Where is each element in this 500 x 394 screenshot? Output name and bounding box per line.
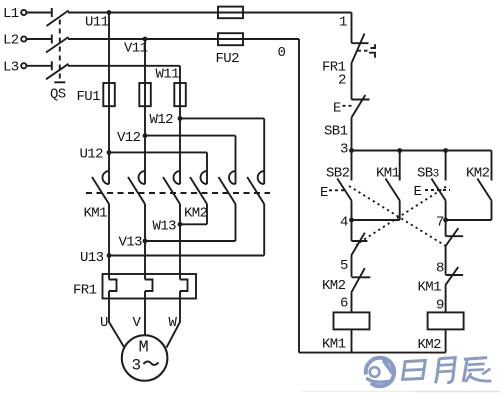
- svg-text:M: M: [139, 339, 149, 358]
- svg-text:1: 1: [339, 15, 347, 31]
- svg-text:SB: SB: [417, 165, 433, 181]
- svg-text:U: U: [100, 315, 108, 331]
- svg-text:E: E: [333, 101, 341, 117]
- svg-text:QS: QS: [50, 87, 66, 103]
- svg-text:7: 7: [436, 215, 444, 231]
- svg-text:KM2: KM2: [322, 278, 346, 294]
- svg-text:9: 9: [436, 298, 444, 314]
- svg-text:0: 0: [278, 45, 286, 61]
- svg-text:L3: L3: [3, 59, 19, 75]
- svg-text:V13: V13: [119, 235, 143, 251]
- svg-text:6: 6: [340, 296, 348, 312]
- svg-text:E: E: [414, 184, 422, 200]
- svg-text:3: 3: [132, 357, 141, 375]
- svg-text:L1: L1: [3, 6, 19, 22]
- svg-text:U13: U13: [80, 250, 104, 266]
- svg-text:5: 5: [340, 258, 348, 274]
- svg-text:W13: W13: [153, 219, 177, 235]
- svg-text:3: 3: [433, 168, 439, 180]
- svg-text:E: E: [320, 185, 328, 201]
- svg-text:KM1: KM1: [84, 206, 108, 222]
- svg-text:W: W: [169, 315, 178, 331]
- svg-text:8: 8: [436, 261, 444, 277]
- svg-text:4: 4: [340, 215, 348, 231]
- svg-text:U11: U11: [85, 15, 109, 31]
- svg-text:FU2: FU2: [216, 51, 240, 67]
- svg-text:3: 3: [340, 142, 348, 158]
- svg-text:KM1: KM1: [322, 336, 346, 352]
- svg-text:FR1: FR1: [73, 283, 97, 299]
- svg-text:W12: W12: [150, 112, 174, 128]
- svg-text:U12: U12: [80, 147, 104, 163]
- svg-text:L2: L2: [3, 33, 19, 49]
- svg-text:2: 2: [338, 73, 346, 89]
- svg-text:V12: V12: [117, 130, 141, 146]
- svg-text:KM2: KM2: [418, 337, 442, 353]
- svg-text:KM2: KM2: [184, 206, 208, 222]
- svg-text:W11: W11: [156, 67, 180, 83]
- svg-text:SB1: SB1: [324, 123, 348, 139]
- svg-text:FU1: FU1: [77, 89, 101, 105]
- svg-text:V: V: [133, 315, 142, 331]
- svg-text:KM1: KM1: [376, 165, 400, 181]
- svg-text:KM1: KM1: [418, 280, 442, 296]
